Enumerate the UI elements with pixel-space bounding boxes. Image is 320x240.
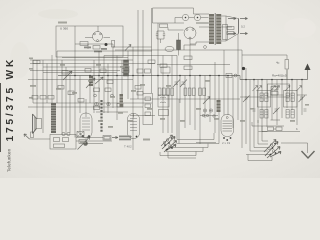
wire rail y47 (113, 46, 152, 48)
vertical wire x117 (116, 56, 118, 121)
arrow plug top right (240, 18, 248, 20)
vertical wire x75 (74, 57, 76, 138)
wire psu internal vertical (75, 26, 113, 57)
coil pair right lower (286, 110, 289, 119)
resistor extra row a (137, 92, 143, 96)
variometer arrow (86, 78, 95, 88)
variometer coil (89, 76, 93, 86)
label 2x19 (222, 141, 231, 145)
wire top right (242, 55, 287, 80)
choke coil dark (177, 40, 181, 50)
chassis arrow down (302, 151, 315, 158)
tube V2 (128, 114, 140, 139)
dial lamp a (62, 132, 65, 135)
vertical wire x108 (107, 64, 109, 114)
resistor R10 (107, 80, 113, 84)
capacitor C13 (160, 64, 167, 67)
vertical wire x195 (194, 76, 196, 131)
wire cap leads (157, 31, 164, 43)
vertical wire x66 (65, 67, 67, 135)
capacitor C12 (148, 60, 155, 63)
trimmer cap c (273, 108, 280, 115)
dial lamp b (67, 132, 70, 135)
resistor R9 (62, 71, 68, 75)
vertical wire x250 (249, 80, 251, 152)
IF box left (258, 91, 271, 108)
wire rail y70 (30, 70, 120, 72)
nested step wires bottom middle (177, 133, 214, 140)
mixer arrow (203, 97, 210, 105)
vertical wire x128 (127, 51, 129, 99)
output transformer T1 primary (209, 14, 221, 44)
wire rail y55 (104, 55, 177, 57)
wire transformer secondary leads (221, 16, 232, 41)
paper smudge a (38, 9, 78, 19)
wire rail y79 left (28, 79, 133, 81)
agc cluster right (226, 74, 232, 78)
vertical wire x151 (151, 8, 153, 93)
lower rail right (240, 96, 262, 98)
vertical wire x210 (209, 76, 211, 123)
wire rail y60 (30, 59, 133, 61)
vertical wire x37 (36, 60, 38, 119)
wire v3 bottom (196, 142, 216, 144)
arrow row above boxes (253, 86, 258, 92)
rectifier tube V4 (93, 32, 103, 42)
vertical wire x242 (241, 50, 243, 148)
socket small a (213, 115, 215, 117)
label U360 (60, 27, 68, 31)
wire to speaker plug (226, 16, 239, 41)
arrow mains cord (112, 137, 118, 139)
label 0,2 (241, 25, 245, 29)
resistor R13 (184, 56, 192, 60)
IF transformer box tall (143, 94, 153, 125)
resistor cluster C vertical (199, 88, 202, 96)
power supply box U360 (56, 26, 123, 57)
wire rail y63 (30, 63, 155, 65)
paper background (0, 0, 320, 178)
vertical wire x52 (51, 55, 53, 103)
vertical wire x238 (237, 34, 239, 121)
transformer T1 core (214, 13, 217, 45)
vertical wire x57 (56, 51, 58, 103)
switch X box (77, 132, 84, 137)
wire mains right (76, 138, 112, 144)
tube AL4 V1 (80, 113, 92, 138)
vertical wire x246 (245, 68, 247, 144)
mains plug component (103, 136, 111, 141)
svg-text:2 x 19: 2 x 19 (222, 141, 231, 145)
wire rail y115 (130, 115, 218, 117)
vertical wire x113 (112, 57, 114, 108)
mains box (50, 135, 76, 150)
vertical wire x179 (178, 99, 180, 144)
wire tube cathode (184, 39, 196, 50)
lower rail left a (33, 102, 152, 104)
vertical wire x228 (227, 76, 229, 116)
diode socket a (95, 102, 98, 105)
trimmer below bus a (173, 80, 180, 88)
vertical wire x258 (257, 80, 259, 145)
capacitor pair a (156, 31, 158, 39)
resistor R6 (105, 88, 111, 92)
vertical wire x180 (179, 76, 181, 104)
trimmer cap e (299, 96, 306, 103)
vertical wire x282 (281, 80, 283, 119)
wire rail y67 (43, 66, 130, 68)
trimmer cap b (253, 109, 256, 111)
socket pair mid (203, 109, 206, 112)
wire transformer primary leads (190, 14, 209, 44)
resistor secondary b (227, 32, 234, 35)
scan edge shadow (0, 83, 1, 152)
label scraps scattered (29, 22, 309, 144)
mains arrow left (24, 134, 30, 139)
resistor R11 (33, 61, 40, 64)
capacitor C9 (32, 96, 38, 100)
label b (296, 127, 298, 131)
resistor R12 (135, 86, 141, 90)
capacitor 100 (93, 46, 100, 50)
vertical wire x90 (89, 76, 91, 104)
antenna arrow up (307, 66, 309, 80)
paper smudge c (284, 18, 316, 38)
hatched coil mid (217, 100, 221, 112)
paper smudge b (10, 42, 30, 78)
output attenuator box (223, 25, 228, 40)
vertical wire x287 (286, 70, 288, 108)
anode bus right (240, 76, 308, 80)
socket circle extra b (111, 94, 114, 97)
IF box right (284, 91, 298, 108)
arrow plug bottom right (240, 33, 248, 35)
wire rail y64 right (157, 64, 230, 66)
vertical wire x292 (291, 80, 293, 111)
speaker cone (37, 119, 42, 129)
vertical wire x158 (157, 23, 159, 95)
wire grid row (168, 27, 184, 30)
label scraps mains (119, 136, 131, 141)
wire mains left (30, 138, 51, 140)
resistor cluster A vertical (158, 88, 161, 96)
vertical wire x190 (189, 45, 191, 125)
vertical wire x70 (69, 71, 71, 134)
vertical wire x62 (61, 60, 63, 135)
arrow plug bottom left (228, 33, 236, 35)
wire rail y50 (115, 49, 242, 51)
resistor psu (80, 42, 88, 46)
vertical wire x122 (121, 60, 123, 103)
resistor R5 (94, 88, 100, 92)
vertical wire x163 (162, 56, 164, 134)
vertical wire x185 (184, 76, 186, 129)
lower rail left b (28, 106, 143, 108)
wire step right low (252, 122, 300, 132)
vertical wire x47 (46, 64, 48, 104)
wire psu heater (85, 37, 110, 39)
wire top output line (153, 8, 194, 23)
IF coil dark left (124, 60, 129, 76)
vertical wire x254 (253, 80, 255, 148)
wave switch S2 (265, 142, 281, 159)
coil pair left lower (260, 110, 263, 119)
electrolytic 4uF (285, 60, 289, 70)
vertical wire x133 (132, 47, 134, 150)
AVC arrow a (63, 71, 72, 80)
wire psu row (75, 43, 113, 45)
vertical wire x302 (301, 80, 303, 116)
coupling box (159, 110, 169, 116)
capacitor C10 (40, 96, 46, 100)
vertical wire x94 (93, 60, 95, 113)
resistor R8 (117, 104, 123, 108)
lower rail mid (130, 98, 240, 100)
label Ra (272, 74, 287, 78)
vertical wire x80 (79, 76, 81, 114)
vertical wire x99 (98, 51, 100, 108)
staircase wires bottom right (262, 140, 268, 142)
jack socket B (194, 14, 200, 20)
capacitor C8 (100, 69, 106, 73)
resistor R14 (184, 66, 192, 70)
svg-text:Ra=40Ω±5: Ra=40Ω±5 (272, 74, 287, 78)
junction dots bus (74, 75, 303, 81)
svg-text:4µ: 4µ (276, 61, 280, 65)
capacitor C11 (48, 96, 54, 100)
jack socket A (182, 14, 188, 20)
vertical wire x272 (271, 80, 273, 121)
label scraps psu (84, 47, 107, 53)
wire rail y72 (43, 72, 117, 74)
capacitor pair b (163, 31, 165, 39)
resistor top (160, 24, 168, 27)
capacitor pair right b (276, 127, 282, 131)
vertical wire x277 (276, 80, 278, 126)
vertical wire x33 (32, 60, 34, 103)
wire jack row (175, 18, 209, 24)
electrode bar dark (100, 100, 102, 133)
vertical wire x205 (204, 76, 206, 119)
vertical wire x104 (103, 56, 105, 114)
svg-text:Telefunken: Telefunken (7, 148, 12, 172)
label T402 (124, 145, 132, 149)
potentiometer w arrow (79, 140, 86, 144)
trimmer below bus b (180, 80, 187, 88)
resistor psu right (112, 41, 115, 48)
IF transformer box right (158, 95, 169, 107)
socket circle extra a (94, 94, 97, 97)
wire long rail y51 (57, 50, 152, 52)
arrow small mid (125, 45, 131, 51)
wire rail y57 (62, 57, 128, 59)
capacitor 30 (105, 43, 108, 46)
svg-text:175/375 WK: 175/375 WK (5, 57, 16, 142)
resistor secondary a (227, 27, 234, 30)
vertical wire x143 (142, 10, 144, 93)
vertical wire x297 (296, 80, 298, 126)
vertical wire x200 (199, 76, 201, 145)
svg-text:U 360: U 360 (60, 27, 68, 31)
resistor R7 (94, 106, 100, 110)
vertical wire x43 (42, 60, 44, 133)
wire anode row (153, 22, 209, 24)
AVC arrow b (95, 77, 103, 84)
fuse vertical (31, 132, 34, 138)
diode socket b (107, 102, 110, 105)
vertical wire x219 (218, 76, 220, 140)
output tube AL4a (184, 27, 196, 39)
capacitor C7 (85, 69, 91, 73)
wire link boxes (258, 95, 307, 123)
svg-text:0,2: 0,2 (241, 25, 245, 29)
vertical wire x138 (137, 10, 139, 99)
speaker plug bar (238, 19, 240, 34)
vertical wire x177 (176, 56, 178, 140)
oval cap top (165, 46, 174, 51)
vertical wire x86t (85, 99, 87, 113)
coil small hatched (120, 94, 124, 107)
vertical wire x172 (171, 56, 173, 134)
vertical wire x262 (261, 80, 263, 142)
trimmer cap f (304, 109, 307, 111)
wire caps right (262, 126, 284, 132)
terminal circle (204, 46, 207, 49)
vertical wire x168 (167, 76, 169, 134)
trimmer cap a (243, 96, 250, 103)
tube V3 (221, 115, 234, 137)
capacitor row mid (122, 69, 129, 73)
capacitor pair right a (268, 127, 274, 131)
vertical wire x215 (214, 62, 216, 133)
vertical wire x233 (232, 76, 234, 129)
potentiometer body (83, 141, 88, 146)
wire rail y112 (96, 111, 128, 113)
wire to chassis (281, 143, 308, 153)
vertical wire x224 (223, 50, 225, 115)
capacitor blob (242, 67, 245, 70)
wave switch S1 (162, 137, 177, 153)
anode bus main (58, 75, 240, 77)
decoupling box (268, 84, 290, 97)
vertical wire x267 (266, 80, 268, 128)
arrow plug top left (228, 18, 236, 20)
resistor cluster B vertical (184, 88, 187, 96)
svg-text:T 402: T 402 (124, 145, 132, 149)
output transformer winding vertical (51, 103, 56, 133)
